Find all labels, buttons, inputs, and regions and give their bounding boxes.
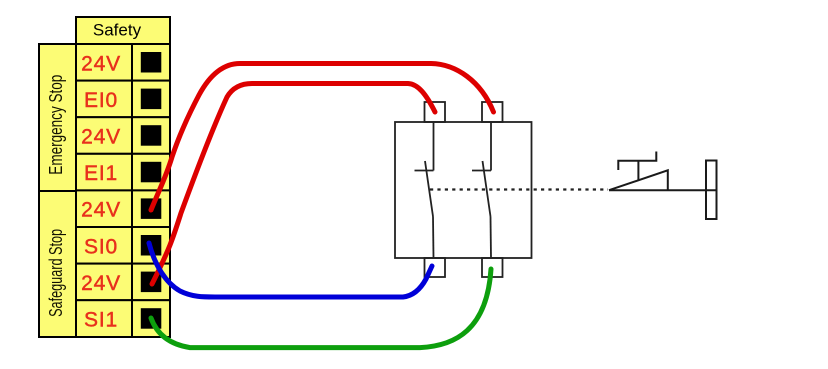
top pin box 2 xyxy=(482,102,503,122)
terminal row 2: EI0 xyxy=(76,81,170,118)
wire blue from SI0 to bottom pin of S1 xyxy=(149,243,432,297)
door bar xyxy=(706,161,717,220)
terminal row 8: SI1 xyxy=(76,300,170,337)
terminal row 6: SI0 xyxy=(76,227,170,264)
terminal row 4: EI1 xyxy=(76,154,170,191)
bottom pin box 2 xyxy=(482,258,503,277)
door switch actuator stem xyxy=(637,161,639,180)
svg-text:24V: 24V xyxy=(81,199,121,222)
terminal row 3: 24V xyxy=(76,117,170,154)
NC contact 1 xyxy=(415,122,434,258)
wire red from 24V row7 to top pin of S1 xyxy=(152,84,435,285)
NC contact 2 xyxy=(472,122,491,258)
mechanical link dotted line xyxy=(430,188,608,190)
terminal row 7: 24V xyxy=(76,264,170,301)
svg-text:SI1: SI1 xyxy=(84,309,118,332)
svg-text:Safety: Safety xyxy=(93,21,142,40)
top pin box 1 xyxy=(425,102,446,122)
terminal block: Emergency Stop group cell xyxy=(39,44,76,191)
terminal row 1: 24V xyxy=(76,44,170,81)
terminal block: Safety header cell xyxy=(76,17,170,44)
wire green from SI1 to bottom pin of S2 xyxy=(151,269,491,348)
svg-text:EI1: EI1 xyxy=(84,162,118,185)
door switch actuator lever xyxy=(618,152,656,171)
svg-text:Emergency Stop: Emergency Stop xyxy=(46,75,66,175)
svg-text:SI0: SI0 xyxy=(84,235,118,258)
svg-text:Safeguard Stop: Safeguard Stop xyxy=(46,229,66,317)
wire red from 24V row5 to top pin of S2 xyxy=(151,64,494,211)
terminal row 5: 24V xyxy=(76,190,170,227)
svg-text:24V: 24V xyxy=(81,52,121,75)
door switch actuator baseline xyxy=(609,189,717,191)
bottom pin box 1 xyxy=(425,258,446,277)
svg-text:EI0: EI0 xyxy=(84,89,118,112)
terminal block: Safeguard Stop group cell xyxy=(39,191,76,337)
switch body S1/S2 xyxy=(395,122,532,258)
svg-text:24V: 24V xyxy=(81,272,121,295)
door switch actuator ramp xyxy=(609,170,668,190)
svg-text:24V: 24V xyxy=(81,126,121,149)
